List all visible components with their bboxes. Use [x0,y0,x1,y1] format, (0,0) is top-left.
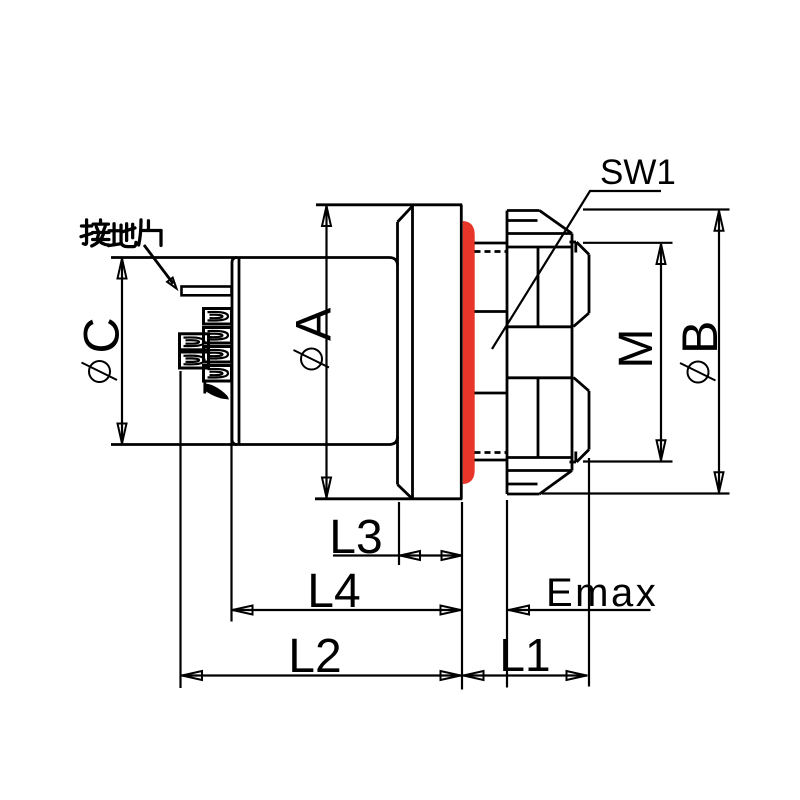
svg-text:C: C [74,317,130,353]
svg-text:M: M [610,329,663,369]
svg-text:SW1: SW1 [600,153,676,192]
svg-text:L3: L3 [329,511,382,564]
svg-text:A: A [286,307,342,341]
svg-text:L2: L2 [288,630,341,683]
svg-text:B: B [672,321,728,354]
svg-text:L1: L1 [499,629,550,681]
svg-text:L4: L4 [307,565,360,618]
svg-text:Emax: Emax [546,571,658,615]
